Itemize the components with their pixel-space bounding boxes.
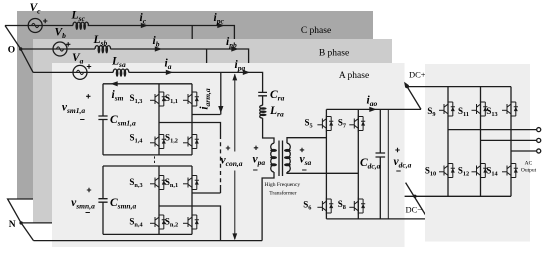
svg-text:A phase: A phase: [339, 71, 369, 81]
submodule SMn right leg wire: [191, 166, 193, 234]
svg-text:O: O: [8, 46, 15, 56]
transistor S1,4: [130, 133, 166, 151]
layer panel B phase: [33, 39, 392, 223]
wire B phase line: [21, 49, 249, 72]
wire N to A return diagonal: [21, 223, 33, 241]
wire B phase return: [21, 222, 54, 224]
high frequency transformer label: [265, 182, 301, 197]
transistor S11: [458, 101, 487, 119]
svg-text:C phase: C phase: [301, 26, 331, 36]
submodule SMn left leg wire: [158, 166, 160, 234]
inductor Lsb: [93, 34, 111, 53]
wire SM1 right leg midpoint output: [192, 114, 221, 116]
transistor Sn,2: [165, 214, 199, 231]
node O: [8, 46, 23, 56]
AC output line phase 3: [511, 149, 541, 153]
capacitor Csm1,a: [98, 84, 136, 155]
node N: [9, 220, 23, 230]
wire chain dashed continuation: [220, 135, 222, 185]
inverter bottom rail: [405, 195, 511, 197]
capacitor Csmn,a: [98, 166, 136, 234]
wire chain to SMn: [220, 185, 222, 193]
voltage line vdc,a: [388, 109, 411, 218]
DAB bridge bottom rail: [326, 218, 428, 220]
transistor S10: [425, 162, 455, 179]
transistor S8: [338, 198, 365, 215]
wire B phase arm stub: [206, 49, 208, 64]
AC output line phase 1: [448, 128, 541, 132]
inverter top rail: [407, 86, 511, 88]
current arrow ia: [165, 58, 174, 76]
wire SMn left leg midpoint to bottom rail: [159, 206, 221, 241]
transistor S1,2: [165, 133, 199, 151]
layer panel C phase: [17, 11, 373, 200]
transistor S1,3: [130, 91, 166, 108]
wire A phase bottom return rail: [34, 240, 263, 242]
inductor Lsc: [71, 10, 89, 30]
DAB bridge left leg wire: [325, 109, 327, 218]
DAB bridge right leg wire: [357, 109, 359, 218]
current arrow ib: [153, 35, 163, 52]
transistor S1,1: [165, 91, 199, 108]
ellipsis dots between submodules: [154, 156, 156, 163]
AC output line phase 2: [481, 138, 541, 142]
voltage label vsa: [300, 148, 312, 170]
transistor Sn,4: [129, 214, 166, 231]
wire C phase return: [8, 199, 36, 223]
wire SM1 left leg midpoint to chain: [159, 123, 221, 136]
svg-text:Vc: Vc: [30, 2, 42, 16]
current arrow ipc: [214, 12, 225, 28]
voltage source Vc: [28, 2, 47, 33]
current arrow ipb: [226, 36, 239, 52]
layer panel inverter: [425, 64, 530, 242]
transistor S9: [427, 101, 454, 119]
DAB bridge top rail: [326, 108, 421, 110]
inverter leg 1 wire: [447, 87, 449, 197]
voltage source Vb: [53, 27, 70, 57]
voltage arrow vcon,a: [221, 74, 243, 241]
wire arm of phase A with current arrow iarm,a: [199, 72, 224, 114]
transistor S14: [486, 162, 518, 179]
svg-text:DC+: DC+: [409, 70, 426, 80]
capacitor Cra: [258, 89, 284, 103]
transformer primary winding: [270, 143, 277, 172]
transformer core: [279, 141, 283, 177]
voltage label vpa: [253, 146, 266, 170]
wire transformer primary return: [262, 172, 274, 241]
submodule SM1 right leg wire: [191, 84, 193, 155]
transistor S5: [305, 115, 334, 132]
wire SMn right leg midpoint input: [192, 192, 221, 194]
wire secondary bottom to bridge: [287, 172, 358, 173]
svg-text:B phase: B phase: [319, 49, 349, 59]
voltage label vsm1,a: [62, 94, 91, 119]
wire Lra to transformer primary: [263, 118, 274, 143]
svg-text:Transformer: Transformer: [269, 190, 296, 197]
inverter leg 2 wire: [480, 87, 482, 197]
capacitor Cdc,a: [360, 109, 385, 218]
current arrow ipa: [235, 59, 251, 75]
svg-text:High Frequency: High Frequency: [265, 182, 301, 188]
submodule SM1 top rail with current arrow ism: [103, 81, 192, 102]
svg-text:AC: AC: [525, 161, 533, 167]
wire A phase line: [33, 72, 263, 92]
wire C phase line: [5, 26, 234, 50]
svg-text:Output: Output: [521, 168, 537, 174]
current arrow ic: [140, 12, 149, 28]
wire secondary top to bridge: [287, 138, 326, 144]
layer panel A phase: [52, 63, 405, 247]
DC+ bus stub arrow: [404, 70, 426, 110]
submodule SMn top rail: [103, 165, 192, 167]
transistor S7: [338, 115, 365, 132]
svg-text:DC−: DC−: [406, 205, 423, 215]
transformer secondary winding: [284, 143, 291, 172]
current arrow iao: [367, 95, 378, 113]
transistor Sn,3: [129, 174, 166, 191]
wire C phase arm stub: [191, 26, 193, 46]
inductor Lra: [260, 96, 284, 119]
inductor Lsa: [111, 56, 129, 77]
transistor S12: [458, 162, 488, 179]
transistor Sn,1: [165, 174, 199, 191]
submodule SM1 bottom rail: [103, 154, 192, 156]
AC output label: [521, 161, 537, 174]
DC- bus stub: [406, 183, 429, 219]
transistor S13: [486, 101, 518, 119]
svg-text:N: N: [9, 220, 16, 230]
inverter leg 3 wire: [510, 87, 512, 197]
submodule SMn bottom rail: [103, 233, 192, 235]
voltage source Va: [72, 52, 91, 79]
submodule SM1 left leg wire: [158, 84, 160, 155]
transistor S6: [303, 198, 333, 215]
voltage label vsmn,a: [71, 188, 95, 213]
